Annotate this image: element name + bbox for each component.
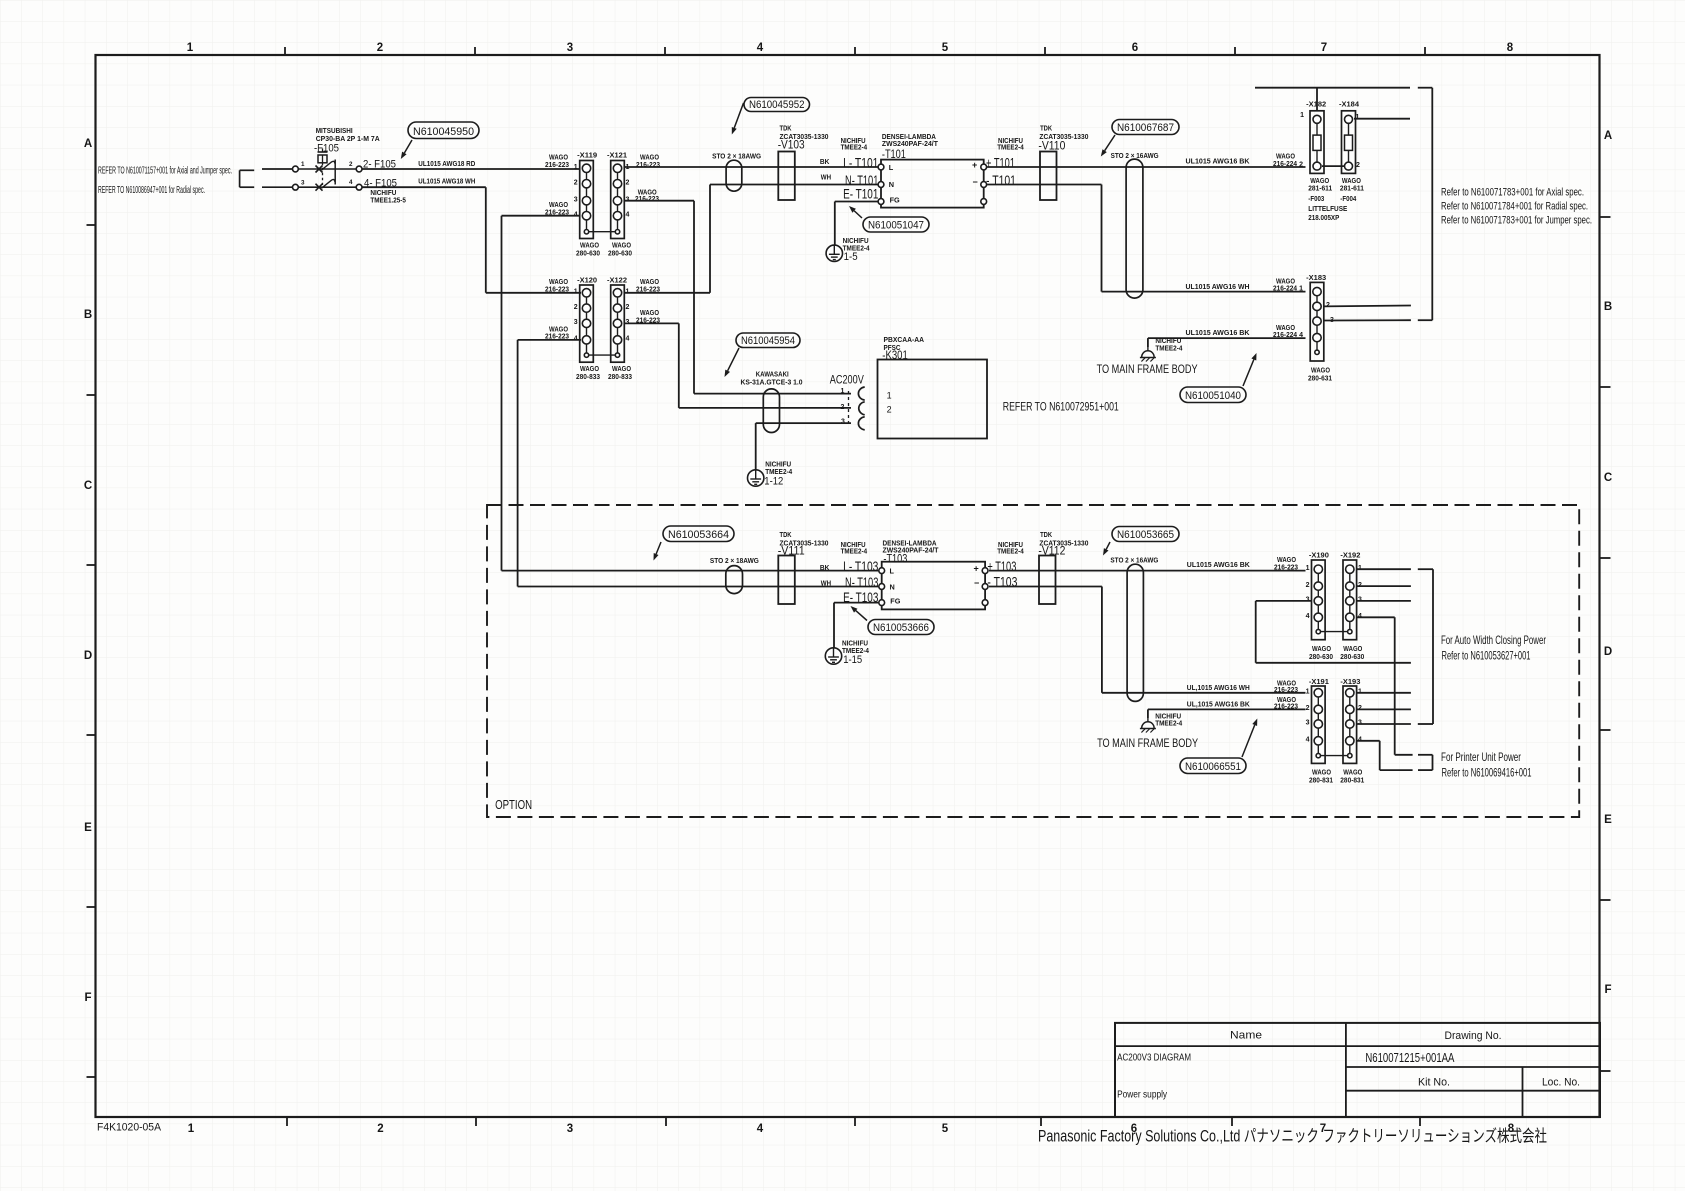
leader arrow from N610067687 [1101, 135, 1115, 157]
svg-text:1: 1 [887, 390, 892, 400]
column labels 1-8 bottom [188, 1123, 1515, 1135]
svg-text:1-15: 1-15 [843, 654, 862, 666]
svg-text:280-831: 280-831 [1309, 776, 1333, 785]
wires X192 pins 1-3 to auto width bracket [1357, 569, 1411, 601]
svg-text:-X190: -X190 [1309, 550, 1329, 559]
svg-text:N610045952: N610045952 [749, 99, 805, 111]
svg-text:UL1015 AWG16 BK: UL1015 AWG16 BK [1187, 560, 1251, 569]
callout N610051047 [863, 217, 929, 232]
svg-text:-K301: -K301 [882, 348, 908, 362]
svg-text:216-223: 216-223 [1274, 685, 1298, 694]
svg-text:OPTION: OPTION [495, 798, 532, 812]
svg-text:TMEE2-4: TMEE2-4 [841, 143, 868, 152]
connector X122 (WAGO 216-223 / 280-833) [611, 285, 625, 362]
svg-text:L: L [890, 567, 895, 576]
wire K301 pin3 to earth 1-12 [756, 423, 851, 470]
labels L-/N-/E- T101 [843, 155, 878, 202]
svg-text:−: − [973, 177, 978, 187]
svg-text:2: 2 [574, 179, 578, 186]
svg-text:N610053666: N610053666 [873, 622, 929, 634]
svg-text:1-5: 1-5 [844, 251, 858, 263]
labels V111 [778, 530, 829, 558]
leader arrow from N610066551 [1242, 719, 1257, 758]
leader arrow to N610045950 [401, 140, 412, 159]
connector X191 (WAGO 216-223 / 280-831) [1312, 686, 1326, 763]
row labels A-F right [1604, 130, 1612, 996]
svg-text:Refer to N610071784+001 for Ra: Refer to N610071784+001 for Radial spec. [1441, 201, 1588, 213]
svg-text:LITTELFUSE: LITTELFUSE [1308, 204, 1347, 213]
svg-text:1: 1 [1306, 689, 1310, 696]
jumper between X119/X121 bottoms [589, 231, 615, 233]
relay box K301 (PBXCAA-AA PFSC) [878, 335, 988, 439]
svg-text:L- T101: L- T101 [843, 155, 878, 171]
svg-text:2: 2 [377, 42, 383, 54]
svg-text:STO 2 × 16AWG: STO 2 × 16AWG [1110, 556, 1158, 565]
svg-text:E: E [84, 822, 92, 834]
svg-text:280-831: 280-831 [1340, 776, 1364, 785]
svg-text:4: 4 [1299, 332, 1303, 339]
fuse holder X182 (WAGO 281-611, F003 LITTELFUSE 218.005XP) [1310, 111, 1324, 174]
earth terminal 1-15 (NICHIFU TMEE2-4) [825, 648, 841, 664]
wire color labels BK WH (option) [820, 563, 831, 588]
svg-text:8: 8 [1507, 42, 1514, 54]
svg-text:Power supply: Power supply [1117, 1089, 1167, 1100]
svg-text:N610051040: N610051040 [1185, 390, 1241, 402]
svg-text:1: 1 [841, 388, 845, 395]
connector X120 (WAGO 216-223 / 280-833) [580, 285, 594, 362]
svg-text:216-223: 216-223 [1274, 562, 1298, 571]
svg-text:-X193: -X193 [1340, 677, 1360, 686]
jumper between X191/X193 bottoms [1321, 755, 1347, 757]
svg-text:C: C [1604, 472, 1612, 484]
connector X190 (WAGO 216-223 / 280-630) [1312, 560, 1326, 640]
wire option L feed [502, 570, 879, 572]
svg-text:TMEE2-4: TMEE2-4 [841, 547, 868, 556]
svg-text:BK: BK [820, 563, 830, 572]
callout N610067687 [1112, 120, 1179, 135]
svg-text:REFER TO N610072951+001: REFER TO N610072951+001 [1003, 402, 1119, 414]
labels X191/X193 [1306, 677, 1365, 785]
svg-text:C: C [84, 480, 92, 492]
svg-text:TMEE2-4: TMEE2-4 [1155, 719, 1183, 728]
svg-text:280-630: 280-630 [1309, 652, 1333, 661]
svg-text:Refer to N610053627+001: Refer to N610053627+001 [1442, 649, 1531, 663]
svg-text:280-833: 280-833 [608, 372, 632, 381]
svg-text:3: 3 [841, 419, 845, 426]
svg-text:216-223: 216-223 [545, 160, 569, 169]
svg-text:L- T103: L- T103 [843, 558, 878, 574]
svg-text:A: A [84, 138, 92, 150]
twisted pair oval STO 2x16AWG (option) [1127, 564, 1143, 701]
svg-text:+: + [974, 564, 979, 574]
wire X193 pin4 down to printer bracket [1357, 741, 1413, 770]
svg-text:FG: FG [890, 196, 900, 205]
svg-text:Name: Name [1230, 1030, 1262, 1042]
labels V103 [778, 124, 829, 152]
svg-text:1: 1 [574, 289, 578, 296]
svg-text:D: D [84, 650, 92, 662]
svg-text:STO 2 × 18AWG: STO 2 × 18AWG [710, 556, 759, 565]
labels X182/X184 [1300, 99, 1364, 222]
labels V112 [1038, 530, 1088, 558]
svg-text:F4K1020-05A: F4K1020-05A [97, 1122, 162, 1134]
twisted pair oval STO 2x16AWG (top) [1126, 159, 1143, 298]
svg-text:A: A [1604, 130, 1612, 142]
labels L-/N-/E- T103 [843, 558, 878, 605]
svg-text:Kit No.: Kit No. [1418, 1077, 1450, 1089]
svg-text:- T101: - T101 [986, 172, 1016, 188]
wire X183 pin2 to off-page [1324, 305, 1411, 308]
svg-text:-V110: -V110 [1038, 139, 1065, 153]
svg-text:D: D [1604, 646, 1612, 658]
svg-text:N: N [889, 180, 894, 189]
wire: input bracket to breaker [240, 169, 293, 187]
callout N610045952 [744, 98, 810, 112]
wire T103 FG to earth 1-15 [834, 603, 878, 648]
wire UL1015 AWG18 WH: F105-4 down to X120 pin1 [362, 177, 581, 293]
svg-text:-X122: -X122 [607, 275, 627, 284]
leader arrow from N610045954 [725, 348, 740, 377]
svg-text:6: 6 [1132, 42, 1138, 54]
frame lug NICHIFU TMEE2-4 (to main frame body, top) [1140, 347, 1156, 362]
wire X184 pin1 to off-page (right) [1354, 118, 1410, 120]
svg-text:N610071215+001AA: N610071215+001AA [1365, 1050, 1454, 1065]
svg-text:3: 3 [301, 180, 305, 187]
svg-text:KS-31A.GTCE-3 1.0: KS-31A.GTCE-3 1.0 [741, 378, 803, 387]
jumper between X190/X192 bottoms [1321, 631, 1347, 633]
svg-text:F: F [84, 992, 91, 1004]
svg-text:+ T103: + T103 [987, 558, 1016, 574]
svg-text:216-224: 216-224 [1273, 284, 1298, 293]
off-page bracket (axial/radial/jumper feeders) [1255, 88, 1432, 321]
svg-text:281-611: 281-611 [1340, 184, 1364, 193]
callout N610051040 [1180, 387, 1246, 403]
svg-text:-T101: -T101 [882, 147, 906, 161]
wire X121 pin3 down to K301 pin1 [624, 201, 852, 394]
note: refer-to spec text [98, 166, 232, 196]
svg-text:-X119: -X119 [577, 151, 597, 160]
wire X183 pin4 to frame lug (UL1015 AWG16 BK) [1148, 323, 1306, 347]
svg-text:280-833: 280-833 [576, 372, 600, 381]
svg-text:280-630: 280-630 [608, 249, 632, 258]
note: refer-to fuse spec text [1441, 187, 1592, 227]
svg-text:UL1015 AWG18 WH: UL1015 AWG18 WH [418, 177, 475, 186]
svg-text:−: − [974, 578, 979, 588]
svg-text:AC200V3 DIAGRAM: AC200V3 DIAGRAM [1117, 1053, 1191, 1064]
svg-text:Refer to N610069416+001: Refer to N610069416+001 [1442, 766, 1532, 780]
svg-text:FG: FG [890, 597, 900, 606]
leader arrow from N610051047 [849, 206, 862, 218]
svg-text:-T103: -T103 [883, 551, 907, 565]
svg-text:2: 2 [1306, 582, 1310, 589]
svg-text:UL1015 AWG18 RD: UL1015 AWG18 RD [418, 159, 475, 168]
earth terminal 1-12 (NICHIFU TMEE2-4) [748, 470, 764, 486]
svg-text:-V112: -V112 [1038, 544, 1065, 558]
svg-text:AC200V: AC200V [830, 373, 864, 387]
labels V110 [1038, 124, 1088, 153]
svg-text:+ T101: + T101 [986, 155, 1015, 171]
svg-text:N610045954: N610045954 [741, 335, 795, 347]
svg-text:Drawing No.: Drawing No. [1445, 1030, 1502, 1042]
svg-text:5: 5 [942, 1123, 949, 1135]
connector X121 (WAGO 216-223 / 280-630) [611, 161, 625, 239]
column labels 1-8 top [187, 42, 1514, 54]
connector X183 (WAGO 216-224 / 280-631) [1310, 282, 1324, 361]
svg-text:280-631: 280-631 [1308, 374, 1332, 383]
jumper between X120/X122 bottoms [589, 354, 615, 356]
wire frame lug to X191 pin2 (UL1015 AWG16 BK) [1148, 695, 1306, 718]
svg-text:3: 3 [567, 1123, 573, 1135]
svg-text:B: B [1604, 301, 1612, 313]
labels earth 1-15 [842, 639, 870, 667]
callout N610045954 [736, 333, 800, 348]
OPTION boundary (dashed) [487, 505, 1579, 817]
svg-text:Refer to N610071783+001 for Ju: Refer to N610071783+001 for Jumper spec. [1441, 215, 1592, 227]
labels X183 [1306, 273, 1334, 383]
labels earth 1-12 [764, 460, 793, 488]
labels NICHIFU TMEE2-4 (T103 input) [841, 540, 868, 556]
power supply T101 (DENSEI-LAMBDA ZWS240PAF-24/T) [878, 132, 987, 208]
svg-text:3: 3 [574, 196, 578, 203]
svg-text:281-611: 281-611 [1308, 184, 1332, 193]
labels earth 1-5 [843, 236, 871, 263]
leader arrow from N610053665 [1103, 542, 1110, 556]
note: printer unit power [1441, 750, 1532, 780]
svg-text:UL,1015 AWG16 WH: UL,1015 AWG16 WH [1187, 683, 1250, 692]
svg-text:1: 1 [188, 1123, 195, 1135]
svg-text:4: 4 [1306, 613, 1310, 620]
callout N610045950 [408, 122, 479, 139]
svg-text:Panasonic Factory Solutions Co: Panasonic Factory Solutions Co.,Ltd パナソニ… [1038, 1127, 1547, 1146]
wire X122 pin1 up to T101 N (WH) [624, 185, 879, 293]
labels NICHIFU TMEE2-4 (T101 input) [841, 136, 868, 152]
svg-text:WH: WH [821, 579, 831, 588]
svg-text:E- T101: E- T101 [843, 186, 878, 202]
svg-text:Loc. No.: Loc. No. [1542, 1077, 1580, 1089]
svg-text:B: B [84, 309, 92, 321]
svg-text:REFER TO N610071157+001 for Ax: REFER TO N610071157+001 for Axial and Ju… [98, 166, 232, 177]
fuse holder X184 (WAGO 281-611, F004 LITTELFUSE 218.005XP) [1342, 111, 1356, 174]
svg-text:4: 4 [349, 179, 353, 186]
wire UL1015 AWG18 RD: F105-2 to X119 pin1 [362, 159, 580, 169]
auto width off-page bracket [1418, 569, 1433, 724]
svg-text:2: 2 [377, 1123, 383, 1135]
svg-text:TMEE1.25-5: TMEE1.25-5 [370, 196, 406, 205]
svg-text:N610051047: N610051047 [868, 219, 924, 231]
svg-text:3: 3 [1306, 720, 1310, 727]
svg-text:5: 5 [942, 42, 949, 54]
svg-text:2: 2 [887, 405, 892, 415]
wire X192 pin4 down to printer bracket [1357, 617, 1413, 755]
callout N610053664 [663, 526, 734, 542]
callout N610053665 [1112, 527, 1179, 542]
svg-text:E: E [1604, 814, 1612, 826]
svg-text:2: 2 [1306, 705, 1310, 712]
svg-text:-X183: -X183 [1306, 273, 1326, 282]
svg-text:N610067687: N610067687 [1117, 122, 1174, 134]
twisted pair oval STO 2x18AWG (top) [726, 160, 742, 191]
svg-text:1-12: 1-12 [764, 476, 783, 488]
svg-text:280-630: 280-630 [576, 249, 600, 258]
label AC200V and pin numbers [830, 373, 864, 426]
leader arrow from N610045952 [732, 103, 744, 135]
wire X182 pin2 to X184 pin2 [1322, 165, 1344, 167]
labels X190/X192 [1306, 550, 1365, 661]
wire - T101 down to X183 pin1 (UL1015 AWG16 WH) [987, 185, 1305, 293]
svg-text:UL1015 AWG16 BK: UL1015 AWG16 BK [1186, 157, 1251, 166]
ferrite V103 (TDK ZCAT3035-1330) [778, 152, 795, 201]
row labels A-F left [84, 138, 92, 1004]
svg-text:-F004: -F004 [1340, 194, 1357, 203]
wire X122 pin3 down to K301 pin2 [624, 323, 852, 408]
wires X193 pins 1-3 to auto width bracket [1357, 693, 1411, 724]
svg-text:N610045950: N610045950 [413, 126, 474, 138]
svg-text:2: 2 [626, 179, 630, 186]
svg-text:L: L [889, 163, 894, 172]
svg-text:2: 2 [626, 304, 630, 311]
svg-text:-X184: -X184 [1339, 99, 1360, 108]
svg-text:-X192: -X192 [1340, 550, 1360, 559]
printer off-page bracket [1418, 755, 1433, 770]
wire + T103 to X190 pin1 (UL1015 AWG16 BK) [989, 555, 1306, 571]
callout N610066551 [1180, 758, 1246, 774]
labels KAWASAKI cable [741, 370, 803, 387]
svg-text:1: 1 [1299, 285, 1303, 292]
ferrite V110 (TDK ZCAT3035-1330) [1040, 152, 1057, 201]
K301 socket contacts [849, 387, 865, 430]
labels +/- T101 [986, 155, 1016, 189]
svg-text:216-223: 216-223 [635, 194, 659, 203]
svg-text:For Printer Unit Power: For Printer Unit Power [1441, 750, 1521, 764]
labels NICHIFU TMEE2-4 (T101 output) [997, 136, 1024, 152]
svg-text:1: 1 [1356, 114, 1360, 121]
svg-text:N610053665: N610053665 [1117, 529, 1174, 541]
label NICHIFU TMEE1.25-5 [370, 188, 406, 205]
labels frame lug option [1155, 712, 1183, 728]
earth terminal 1-5 (NICHIFU TMEE2-4) [826, 245, 842, 261]
svg-text:Refer to N610071783+001 for Ax: Refer to N610071783+001 for Axial spec. [1441, 187, 1584, 199]
svg-text:4: 4 [626, 336, 630, 343]
svg-text:216-223: 216-223 [545, 284, 569, 293]
twisted pair oval STO 2x18AWG (option) [726, 566, 743, 594]
cable oval KAWASAKI KS-31A [763, 389, 779, 433]
svg-text:N- T103: N- T103 [845, 574, 879, 590]
svg-text:UL1015 AWG16 BK: UL1015 AWG16 BK [1186, 328, 1251, 337]
callout N610053666 [868, 620, 934, 635]
wire - T103 down to X191 pin1 (UL1015 AWG16 WH) [989, 587, 1306, 695]
svg-text:218.005XP: 218.005XP [1308, 213, 1339, 222]
svg-text:3: 3 [574, 319, 578, 326]
svg-text:2: 2 [574, 304, 578, 311]
svg-text:2: 2 [349, 161, 353, 168]
svg-text:1: 1 [1300, 112, 1304, 119]
svg-text:STO 2 × 18AWG: STO 2 × 18AWG [712, 152, 761, 161]
wire X119 pin4 down to option circuit L [502, 216, 581, 571]
svg-text:UL,1015 AWG16 BK: UL,1015 AWG16 BK [1187, 700, 1251, 709]
svg-text:N610066551: N610066551 [1185, 761, 1241, 773]
svg-text:4: 4 [626, 211, 630, 218]
wire X183 pin3 to off-page bracket [1324, 319, 1411, 321]
circuit breaker F105 (MITSUBISHI CP30-BA 2P 1-M 7A) [293, 126, 381, 191]
svg-text:280-630: 280-630 [1340, 652, 1364, 661]
labels X120/X122 [545, 275, 660, 381]
svg-text:TMEE2-4: TMEE2-4 [1155, 344, 1183, 353]
svg-text:For Auto Width Closing Power: For Auto Width Closing Power [1441, 633, 1546, 647]
svg-text:7: 7 [1321, 42, 1327, 54]
svg-text:1: 1 [301, 161, 305, 168]
note: auto width closing power [1441, 633, 1546, 663]
svg-text:1: 1 [187, 42, 194, 54]
svg-text:2: 2 [841, 404, 845, 411]
svg-text:TO MAIN FRAME BODY: TO MAIN FRAME BODY [1097, 738, 1198, 750]
svg-text:1: 1 [1306, 565, 1310, 572]
svg-text:-X121: -X121 [607, 151, 627, 160]
svg-text:UL1015 AWG16 WH: UL1015 AWG16 WH [1186, 282, 1250, 291]
svg-text:REFER TO N610086947+001 for Ra: REFER TO N610086947+001 for Radial spec. [98, 185, 205, 196]
svg-text:4: 4 [757, 1123, 764, 1135]
svg-text:N610053664: N610053664 [668, 529, 729, 541]
svg-text:+: + [972, 160, 977, 170]
frame lug NICHIFU TMEE2-4 (to main frame body, option) [1140, 718, 1156, 733]
svg-text:N: N [890, 583, 895, 592]
connector X193 (WAGO 216-223 / 280-831) [1343, 686, 1357, 763]
labels X119/X121 [545, 151, 660, 258]
svg-text:STO 2 × 16AWG: STO 2 × 16AWG [1111, 151, 1159, 160]
svg-text:2: 2 [1299, 161, 1303, 168]
svg-text:3: 3 [567, 42, 573, 54]
labels NICHIFU TMEE2-4 (T103 output) [997, 540, 1024, 556]
svg-text:2: 2 [1356, 162, 1360, 169]
svg-text:-V103: -V103 [778, 138, 805, 152]
svg-text:-V111: -V111 [778, 544, 805, 558]
svg-text:1: 1 [574, 164, 578, 171]
svg-text:216-223: 216-223 [1274, 702, 1298, 711]
svg-text:4: 4 [1306, 737, 1310, 744]
ferrite V112 (TDK ZCAT3035-1330) [1039, 556, 1056, 605]
svg-text:BK: BK [820, 157, 830, 166]
wire X121 pin1 to T101 L (BK) [624, 166, 879, 168]
power supply T103 (DENSEI-LAMBDA ZWS240PAF-24/T) [879, 539, 988, 610]
svg-text:TMEE2-4: TMEE2-4 [997, 143, 1024, 152]
wire X190 pin3 loop to auto width bracket [1256, 601, 1411, 663]
labels frame lug top [1155, 336, 1183, 353]
wire option N feed [518, 586, 879, 588]
connector X119 (WAGO 216-223 / 280-630) [580, 161, 594, 239]
svg-text:-X191: -X191 [1309, 677, 1329, 686]
leader arrow from N610053664 [654, 542, 662, 561]
labels +/- T103 [987, 558, 1017, 590]
svg-text:-F003: -F003 [1308, 194, 1324, 203]
wire X182 pin1 up to off-page bracket [1316, 88, 1318, 111]
svg-text:F: F [1604, 984, 1611, 996]
svg-text:216-224: 216-224 [1273, 159, 1298, 168]
svg-text:4: 4 [757, 42, 764, 54]
leader arrow from N610053666 [851, 606, 868, 621]
svg-text:TMEE2-4: TMEE2-4 [997, 547, 1024, 556]
leader arrow from N610051040 [1243, 353, 1257, 386]
wire X120 pin4 down to option circuit N [518, 340, 581, 587]
wire T101 FG to earth 1-5 [835, 202, 878, 246]
connector X192 (WAGO 216-223 / 280-630) [1343, 560, 1357, 640]
svg-text:TO MAIN FRAME BODY: TO MAIN FRAME BODY [1097, 364, 1198, 376]
svg-text:216-224: 216-224 [1273, 330, 1298, 339]
title block [1115, 1023, 1600, 1117]
svg-text:-X120: -X120 [577, 275, 597, 284]
svg-text:WH: WH [821, 173, 831, 182]
wire + T101 to X182 pin2 (UL1015 AWG16 BK) [987, 152, 1305, 169]
ferrite V111 (TDK ZCAT3035-1330) [778, 556, 795, 605]
wire color labels BK WH [820, 157, 831, 182]
